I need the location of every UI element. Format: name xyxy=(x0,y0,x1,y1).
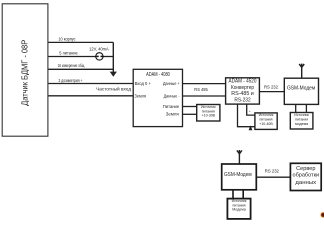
wire pin2 дозиметрия + xyxy=(48,83,133,85)
svg-text:Датчик БДМГ - 08Р: Датчик БДМГ - 08Р xyxy=(21,39,30,105)
GSM modem 2 xyxy=(222,164,257,190)
svg-text:12V, 40mA: 12V, 40mA xyxy=(89,47,109,52)
svg-text:Частотный вход: Частотный вход xyxy=(96,86,131,92)
wire pin5 питание xyxy=(48,56,96,58)
marker red dot xyxy=(320,212,324,218)
wire питание to supply xyxy=(183,106,197,108)
wire modem1 power b xyxy=(305,104,307,112)
wire pin16 измерение общ xyxy=(48,68,113,70)
current source 12V 40mA xyxy=(96,53,103,60)
svg-text:Данные +: Данные + xyxy=(163,81,180,86)
svg-text:Вход 0 +: Вход 0 + xyxy=(135,81,152,86)
sensor block Датчик БДМГ-08Р xyxy=(2,4,48,136)
arrow into supply xyxy=(249,125,253,130)
svg-text:10 корпус: 10 корпус xyxy=(58,36,76,41)
power supply Источник питания Модема 2 xyxy=(227,199,250,219)
svg-text:5 питание: 5 питание xyxy=(59,50,78,55)
svg-text:Модема: Модема xyxy=(232,208,246,212)
svg-text:2 дозиметрия +: 2 дозиметрия + xyxy=(59,78,83,83)
svg-text:Сервер: Сервер xyxy=(296,166,315,172)
svg-text:+10-40В: +10-40В xyxy=(259,122,273,126)
wire RS-485 data- xyxy=(183,95,226,97)
power supply Источник питания +10-30В xyxy=(197,105,220,122)
svg-text:RS 485: RS 485 xyxy=(194,87,208,93)
svg-text:Питание: Питание xyxy=(163,104,180,109)
wire modem1 power a xyxy=(295,104,297,112)
wire modem2 power b xyxy=(242,190,244,199)
svg-text:16 измерение общ.: 16 измерение общ. xyxy=(58,63,86,68)
module ADAM-4520 converter xyxy=(226,78,260,104)
wire RS-232 to modem xyxy=(259,91,284,93)
svg-text:Источник: Источник xyxy=(294,113,309,117)
svg-text:RS-232: RS-232 xyxy=(234,98,250,104)
svg-text:модема: модема xyxy=(295,122,309,126)
svg-text:питания: питания xyxy=(260,118,273,122)
wire RS-232 to server xyxy=(256,176,290,178)
module ADAM-4080 xyxy=(133,69,182,126)
power supply Источник питания модема 1 xyxy=(290,113,313,130)
wire modem2 power a xyxy=(232,190,234,199)
svg-text:+10-30В: +10-30В xyxy=(202,114,216,118)
svg-text:-: - xyxy=(249,109,251,115)
svg-text:Конвертер: Конвертер xyxy=(231,85,254,91)
svg-text:ADAM - 4080: ADAM - 4080 xyxy=(146,72,170,78)
svg-text:RS-485 и: RS-485 и xyxy=(231,91,254,97)
antenna of GSM modem 2 xyxy=(237,150,242,164)
wire 4520 power minus xyxy=(247,104,255,115)
svg-text:питания: питания xyxy=(295,118,308,122)
svg-text:RS 232: RS 232 xyxy=(264,85,278,90)
server block Сервер обработки данных xyxy=(290,163,321,190)
svg-text:Земля: Земля xyxy=(135,94,147,99)
wire земля to supply xyxy=(183,113,197,115)
antenna of GSM modem 1 xyxy=(299,64,304,79)
svg-text:RS 232: RS 232 xyxy=(265,168,280,173)
svg-text:ADAM - 4520: ADAM - 4520 xyxy=(229,78,257,84)
wire 4520 power plus xyxy=(238,104,255,127)
svg-text:данных: данных xyxy=(295,180,316,186)
power supply Источник питания +10-40В xyxy=(255,113,277,129)
svg-text:GSM-Модем: GSM-Модем xyxy=(287,86,316,92)
svg-text:обработки: обработки xyxy=(293,173,320,179)
svg-text:Земля: Земля xyxy=(166,112,179,117)
svg-text:GSM-Модем: GSM-Модем xyxy=(224,172,252,178)
wire частотный вход xyxy=(48,95,133,97)
wire common vertical bus xyxy=(112,42,114,72)
wire pin10 корпус xyxy=(48,41,113,43)
svg-text:Источник: Источник xyxy=(259,113,274,117)
svg-text:Данные -: Данные - xyxy=(164,94,180,99)
ground arrow xyxy=(110,72,117,77)
GSM modem 1 xyxy=(284,78,318,104)
wire RS-485 data+ xyxy=(183,83,226,85)
